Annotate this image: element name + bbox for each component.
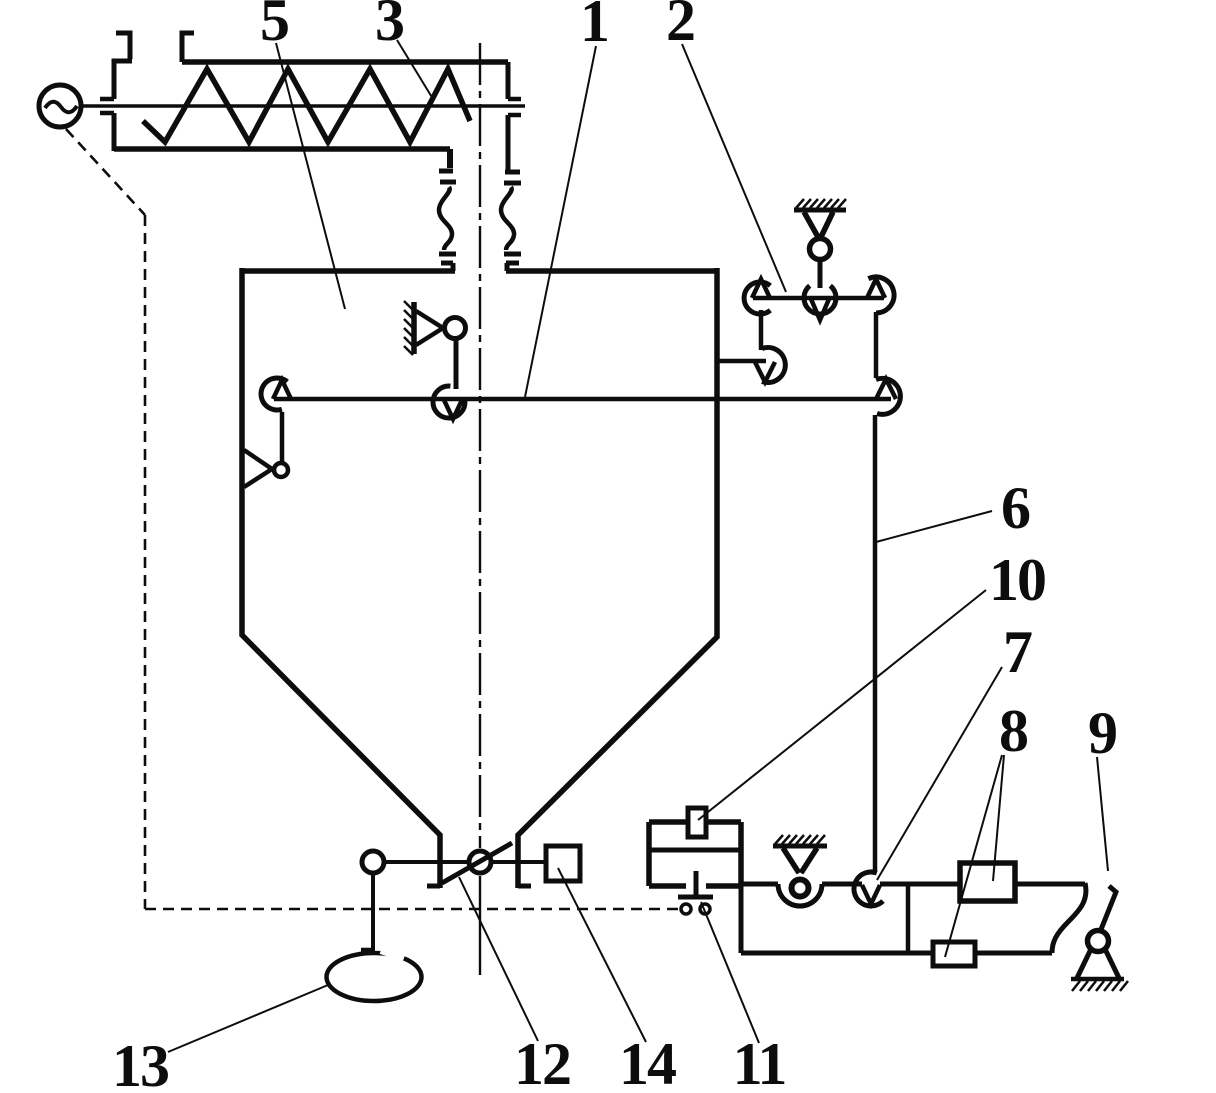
svg-text:10: 10 (989, 547, 1045, 613)
svg-text:3: 3 (375, 0, 403, 53)
svg-text:6: 6 (1001, 475, 1030, 541)
svg-text:1: 1 (580, 0, 608, 54)
svg-text:2: 2 (666, 0, 694, 53)
svg-text:9: 9 (1088, 700, 1116, 766)
svg-text:7: 7 (1003, 619, 1032, 685)
svg-text:5: 5 (260, 0, 288, 53)
svg-text:13: 13 (112, 1033, 168, 1088)
svg-text:12: 12 (514, 1031, 570, 1088)
svg-text:11: 11 (733, 1031, 786, 1088)
svg-text:14: 14 (619, 1031, 676, 1088)
svg-text:8: 8 (999, 698, 1028, 764)
